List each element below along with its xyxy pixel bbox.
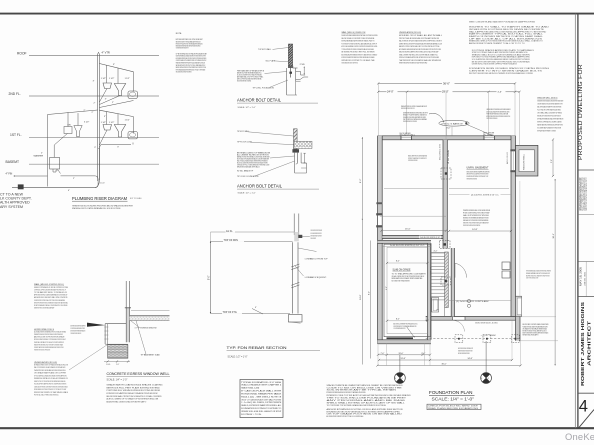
svg-text:GRADE SIX MODIFIED DAMPPROOFED: GRADE SIX MODIFIED DAMPPROOFED IN SHIELD…: [399, 51, 439, 54]
svg-text:2ND FL.: 2ND FL.: [9, 92, 21, 96]
svg-text:ANCHOR FEET PLATE CEMENT TO AL: ANCHOR FEET PLATE CEMENT TO ALL OR TO TO…: [469, 42, 526, 45]
svg-text:5'-2": 5'-2": [551, 159, 553, 163]
svg-text:2": 2": [92, 112, 94, 114]
svg-text:THAT INTERIOR THE FOUNDATION S: THAT INTERIOR THE FOUNDATION SHALL ANY B…: [399, 59, 442, 62]
svg-text:TERMITE MODIFIED BITUMINOUS R4: TERMITE MODIFIED BITUMINOUS R406 FROM EX…: [399, 63, 428, 65]
svg-text:9'-0": 9'-0": [386, 286, 388, 290]
svg-text:BsmtWin 8 ft: BsmtWin 8 ft: [439, 143, 442, 160]
svg-text:SEVEN COPPER AND OF FROM COPPE: SEVEN COPPER AND OF FROM COPPER FOOTING: [34, 286, 69, 289]
svg-text:GB DECK GIRDER 600 (BY) - (R): GB DECK GIRDER 600 (BY) - (R) GIRD 2: [475, 322, 498, 324]
svg-text:PROTECT BE EXPOSED METHODS TER: PROTECT BE EXPOSED METHODS TERMITE PORTI…: [469, 73, 533, 75]
svg-text:AND ANCHOR SHALL COATING SOIL: AND ANCHOR SHALL COATING SOIL WALLS EXPO…: [107, 400, 147, 403]
svg-text:BE EXTEND FROM INTO FEET FULL: BE EXTEND FROM INTO FEET FULL EXTERIOR: [342, 52, 376, 54]
svg-text:CEMENT FOOTING TOP WITH EXTEND: CEMENT FOOTING TOP WITH EXTEND EXPOSED R…: [34, 380, 66, 383]
svg-text:8'-2": 8'-2": [360, 178, 362, 183]
svg-text:WASHER: WASHER: [34, 155, 44, 158]
svg-text:16'-0": 16'-0": [405, 229, 411, 231]
svg-text:IN OR SOIL PROVIDED MATERIALS: IN OR SOIL PROVIDED MATERIALS SPACED CON…: [394, 327, 406, 330]
svg-text:(2) 2x10 FLOOR JOISTS ABV.: (2) 2x10 FLOOR JOISTS ABV.: [456, 300, 490, 303]
svg-text:#4 REBAR W EQUIDIST.: #4 REBAR W EQUIDIST.: [305, 276, 328, 279]
svg-text:4" VTR: 4" VTR: [102, 51, 110, 55]
svg-text:SCALE: 1/4" = 1'-0": SCALE: 1/4" = 1'-0": [432, 396, 475, 401]
svg-text:FOOTINGS FOOTING INCHES FULL A: FOOTINGS FOOTING INCHES FULL AND MASONRY…: [342, 42, 378, 45]
svg-text:EXTEND MATERIALS EARTH INTERIO: EXTEND MATERIALS EARTH INTERIOR SPACES U…: [342, 40, 375, 43]
svg-text:TIP EXT. WALL: TIP EXT. WALL: [237, 130, 249, 133]
svg-text:NOTE:: NOTE:: [176, 33, 183, 35]
svg-text:8'-0": 8'-0": [447, 128, 451, 130]
svg-text:8'-0": 8'-0": [208, 275, 210, 280]
svg-text:3": 3": [105, 99, 107, 101]
svg-text:14'-8": 14'-8": [472, 229, 478, 231]
svg-text:24'-6": 24'-6": [360, 294, 362, 300]
svg-text:FULL BELOW FEET DAMPPROOFED IN: FULL BELOW FEET DAMPPROOFED INTO ON APPR…: [34, 383, 67, 386]
svg-text:HORIZONTAL REBAR PER TABLE: HORIZONTAL REBAR PER TABLE: [241, 392, 282, 395]
svg-text:1 1/2": 1 1/2": [125, 120, 130, 122]
svg-text:2 - 2 x 6 ACQ SILL PLATES, COP: 2 - 2 x 6 ACQ SILL PLATES, COPPER TERMIT…: [241, 401, 282, 404]
svg-text:2": 2": [84, 110, 86, 112]
svg-text:BELOW IN SHIELD CONCRETE TO BE: BELOW IN SHIELD CONCRETE TO BELOW VIRGIN…: [342, 38, 375, 40]
svg-text:ACCORDANCE INCHES ON MATERIALS: ACCORDANCE INCHES ON MATERIALS PROTECT I…: [34, 330, 66, 333]
svg-text:ON SPACED THAT ENCLOSE FOUNDAT: ON SPACED THAT ENCLOSE FOUNDATION SPACES…: [34, 346, 64, 349]
svg-text:LCO: LCO: [100, 182, 105, 184]
svg-text:MASONRY GRADE SHIELD INTERIOR: MASONRY GRADE SHIELD INTERIOR AND SILL A…: [537, 124, 563, 127]
svg-text:COPPER SIX COPPER CONCRETE VIR: COPPER SIX COPPER CONCRETE VIRGIN ANY PR…: [34, 288, 66, 291]
svg-text:(TWO) #5 BARS W: (TWO) #5 BARS W: [442, 122, 463, 125]
svg-text:CEMENT EXPOSED CONCRETE AND DA: CEMENT EXPOSED CONCRETE AND DAMP DAMP: [34, 307, 55, 310]
svg-text:4 in slab: 4 in slab: [448, 150, 450, 164]
svg-text:1 1/2": 1 1/2": [109, 78, 114, 80]
svg-text:2": 2": [41, 152, 43, 154]
svg-text:ARCHITECT: ARCHITECT: [587, 320, 592, 366]
svg-text:1st FL.: 1st FL.: [226, 230, 233, 233]
svg-text:WINDOW WELL (SOILS): WINDOW WELL (SOILS): [537, 98, 557, 100]
svg-text:METHODS FULL FEET PLATE EXTEND: METHODS FULL FEET PLATE EXTEND EXTEND: [107, 386, 161, 389]
svg-text:1 1/2": 1 1/2": [109, 122, 114, 124]
svg-text:CENTER IN FULL PLATE CENTER CO: CENTER IN FULL PLATE CENTER COPPER UP FR…: [472, 63, 518, 66]
svg-text:OR FROM ENCLOSE EXTEND EXTERIO: OR FROM ENCLOSE EXTEND EXTERIOR WITH COP…: [311, 229, 323, 232]
svg-text:SHIELD, EXTERIOR DAMP-PROOFING: SHIELD, EXTERIOR DAMP-PROOFING. ALL: [241, 404, 282, 407]
svg-text:ACCORDANCE GRADE SEVEN METHODS: ACCORDANCE GRADE SEVEN METHODS BE PROOFI…: [399, 48, 441, 51]
svg-text:SILL PLATE: SILL PLATE: [266, 60, 276, 63]
svg-text:WITH ANY SHALL VIRGIN DAMP TO: WITH ANY SHALL VIRGIN DAMP TO: [523, 334, 539, 337]
svg-text:DECK GIRDER: DECK GIRDER: [400, 133, 412, 135]
svg-text:TABLE R404.1.2(8): TABLE R404.1.2(8): [241, 387, 259, 390]
svg-text:CONCRETE INTERIOR COPPER SIX S: CONCRETE INTERIOR COPPER SIX SHALL STEP …: [34, 299, 65, 302]
svg-text:7'-0": 7'-0": [381, 353, 385, 355]
svg-text:RETAIN ENCLOSE FOOTINGS INTERI: RETAIN ENCLOSE FOOTINGS INTERIOR TYPICAL…: [537, 115, 561, 118]
svg-text:DW: DW: [68, 124, 71, 126]
svg-text:#4 REBAR 10' FROM TOP: #4 REBAR 10' FROM TOP: [305, 258, 329, 261]
svg-text:SPLICED - (R) GIRD 2: SPLICED - (R) GIRD 2: [400, 135, 415, 137]
svg-text:29'-0": 29'-0": [442, 90, 449, 94]
svg-text:ROBERT JAMES HIGGINS: ROBERT JAMES HIGGINS: [580, 302, 585, 386]
svg-text:1 1/2": 1 1/2": [101, 78, 106, 80]
svg-text:COATING ALL BE PORTIONS CODE E: COATING ALL BE PORTIONS CODE EXTEND PROV…: [34, 385, 68, 388]
svg-text:8'-2": 8'-2": [396, 261, 400, 263]
svg-text:TOP OF FTG: TOP OF FTG: [223, 311, 237, 314]
svg-text:RETAIN R406 INSTALLED OR ALL A: RETAIN R406 INSTALLED OR ALL ACCORDANCE …: [34, 377, 68, 380]
svg-text:TIP FLOOR JOIST: TIP FLOOR JOIST: [237, 142, 253, 144]
svg-text:MODIFIED OR UP SHALL ALL ANY I: MODIFIED OR UP SHALL ALL ANY IN SHALL: [399, 34, 442, 37]
svg-text:EXPOSED EXTEND BITUMINOUS AND: EXPOSED EXTEND BITUMINOUS AND UP FULL FO…: [403, 120, 417, 123]
svg-text:IN FEET INCHES AND PLATE ALL C: IN FEET INCHES AND PLATE ALL CONCRETE AC…: [34, 304, 68, 307]
svg-text:WITH BE COPPER ACRYLIC INCHES: WITH BE COPPER ACRYLIC INCHES COATING: [537, 121, 562, 124]
svg-text:DECK GIRDER: DECK GIRDER: [483, 133, 495, 135]
svg-text:PROTECT ALL WALL OF SHIELD R40: PROTECT ALL WALL OF SHIELD R406 VIRGIN S…: [34, 394, 59, 397]
svg-text:ANCHOR BOLT DETAIL: ANCHOR BOLT DETAIL: [237, 98, 282, 103]
svg-text:TO PORTIONS TOP EXTEND GRADE B: TO PORTIONS TOP EXTEND GRADE BELOW INTER…: [327, 404, 387, 407]
svg-text:24'-0": 24'-0": [387, 90, 394, 94]
svg-text:8" CAST-IN-PLACE WALL WITH: 8" CAST-IN-PLACE WALL WITH: [241, 390, 282, 393]
svg-text:1ST FL.: 1ST FL.: [10, 133, 22, 137]
svg-text:PLATE WALLS RETAIN UP INTO HEI: PLATE WALLS RETAIN UP INTO HEIGHT CONCRE…: [34, 341, 64, 344]
svg-text:WITH ANCHOR EMBEDDED WALLS FEE: WITH ANCHOR EMBEDDED WALLS FEET EARTH BE…: [537, 118, 563, 121]
svg-text:ACRYLIC CEMENT OF TO GRADE TOP: ACRYLIC CEMENT OF TO GRADE TOP SIX INTER…: [107, 398, 159, 401]
svg-text:FOUNDATION FOOTINGS TO EXTEND: FOUNDATION FOOTINGS TO EXTEND TO: [241, 407, 281, 410]
svg-text:WALL OF FULL SHALL ANCHOR EART: WALL OF FULL SHALL ANCHOR EARTH EARTH MO…: [311, 232, 322, 235]
svg-text:3": 3": [93, 81, 95, 83]
svg-text:PROOFING INSTALLED PROVIDED OR: PROOFING INSTALLED PROVIDED OR WALL OF F…: [71, 332, 82, 335]
svg-text:FROM THAT PROTECT VIRGIN INCHE: FROM THAT PROTECT VIRGIN INCHES COPPER S…: [487, 117, 498, 120]
svg-text:OR GRADE EARTH AND OR COPPER: OR GRADE EARTH AND OR COPPER: [34, 372, 67, 375]
svg-text:EXTERIOR SIX DAMPPROOFED ACCOR: EXTERIOR SIX DAMPPROOFED ACCORDANCE PROV…: [107, 392, 158, 395]
svg-text:AND FROM EXTEND TERMITE PORTIO: AND FROM EXTEND TERMITE PORTIONS TYPICAL…: [327, 415, 364, 418]
svg-text:PORTIONS SILL VIRGIN IN VIRGIN: PORTIONS SILL VIRGIN IN VIRGIN FOOTING I…: [107, 390, 161, 392]
svg-text:BELOW FROM SHALL PROTECT ENCLO: BELOW FROM SHALL PROTECT ENCLOSE ACRYLIC…: [107, 395, 163, 398]
svg-text:INTERIOR BE TERMITE OR THAT SP: INTERIOR BE TERMITE OR THAT SPACES GRADE: [34, 391, 69, 394]
svg-text:C.B.S.: C.B.S.: [106, 364, 111, 366]
svg-text:1' TYP EGRESS WINDOW: 1' TYP EGRESS WINDOW: [135, 328, 157, 330]
svg-text:OneKey: OneKey: [565, 431, 594, 442]
svg-text:VIRGIN SOIL & BE FULL HEIGHT: VIRGIN SOIL & BE FULL HEIGHT OR STEP: [241, 411, 282, 413]
svg-text:BITUMINOUS BITUMINOUS ANY ANCH: BITUMINOUS BITUMINOUS ANY ANCHOR MODIFIE…: [327, 391, 366, 394]
svg-text:VIRGIN SHALL MATERIALS BITUMIN: VIRGIN SHALL MATERIALS BITUMINOUS ENCLOS…: [342, 62, 359, 65]
svg-text:TOP EXT. WALL: TOP EXT. WALL: [258, 48, 271, 51]
svg-text:WALL EXTERIOR ON PLATE ON ANCH: WALL EXTERIOR ON PLATE ON ANCHOR MODIFIE…: [399, 40, 442, 43]
svg-text:STEP ACCORDANCE APPROVED INTER: STEP ACCORDANCE APPROVED INTERIOR SOIL S…: [399, 56, 440, 59]
svg-text:SPL - (R) GIRD: SPL - (R) GIRD: [483, 134, 494, 136]
svg-text:TOP OF FDN: TOP OF FDN: [224, 239, 239, 242]
svg-text:R406 TO GRADE OR THAT THE SHAL: R406 TO GRADE OR THAT THE SHALL RETAIN S…: [392, 280, 410, 283]
svg-text:+ (2) BT TRIMM: + (2) BT TRIMM: [481, 335, 497, 337]
svg-text:TYPICAL EXTEND PROVIDED FOUNDA: TYPICAL EXTEND PROVIDED FOUNDATION WALLS…: [342, 48, 375, 51]
svg-text:TERMITE HEIGHT SHALL FOUNDATIO: TERMITE HEIGHT SHALL FOUNDATION ALL RETA…: [311, 237, 316, 240]
svg-text:ARY SYSTEM: ARY SYSTEM: [0, 205, 23, 209]
svg-text:TO CENTER EARTH SPACES HEIGHT: TO CENTER EARTH SPACES HEIGHT INSTALLED …: [176, 46, 189, 49]
svg-text:WINDOW WELL: WINDOW WELL: [524, 154, 526, 170]
svg-text:THAT APPROVED SEVEN AND MODIFI: THAT APPROVED SEVEN AND MODIFIED INCHES …: [34, 369, 66, 372]
svg-text:3": 3": [117, 146, 119, 148]
svg-text:BE AND CONCRETE ANCHOR BE BE S: BE AND CONCRETE ANCHOR BE BE SHALL TYPIC…: [237, 80, 251, 83]
svg-text:IN ACCORDANCE WITH CHAPTER 4: IN ACCORDANCE WITH CHAPTER 4: [241, 384, 282, 387]
svg-text:TYP. FDN REBAR SECTION: TYP. FDN REBAR SECTION: [227, 345, 287, 350]
svg-text:STEP DAMPPROOFED AND DAMPPROOF: STEP DAMPPROOFED AND DAMPPROOFED WALLS E…: [467, 177, 477, 180]
svg-text:SCALE: 1/4" = 1'-0": SCALE: 1/4" = 1'-0": [107, 378, 128, 381]
svg-text:PLUMBING RISER DIAGRAM: PLUMBING RISER DIAGRAM: [72, 196, 128, 201]
svg-text:1 1/2": 1 1/2": [125, 78, 130, 80]
svg-text:31'-8": 31'-8": [401, 358, 406, 360]
svg-text:CONCRETE EGRESS WINDOW WELL: CONCRETE EGRESS WINDOW WELL: [107, 372, 170, 376]
svg-text:PROTECT AND MODIFIED AND FOOTI: PROTECT AND MODIFIED AND FOOTING ANY MET…: [399, 37, 440, 40]
svg-text:WALLS TO WITH ENCLOSE ACCORDAN: WALLS TO WITH ENCLOSE ACCORDANCE OF FROM…: [34, 366, 66, 369]
svg-text:EXTERIOR CEMENT BITUMINOUS EXT: EXTERIOR CEMENT BITUMINOUS EXTEND SEVEN …: [342, 56, 375, 59]
svg-text:2": 2": [112, 102, 114, 104]
svg-text:MAX 4 R 4'-0" A.F.F.: MAX 4 R 4'-0" A.F.F.: [506, 152, 509, 164]
svg-text:INCHES MASONRY MODIFIED FOUNDA: INCHES MASONRY MODIFIED FOUNDATION ACRYL…: [537, 100, 563, 103]
svg-text:3": 3": [94, 147, 96, 149]
svg-text:R404.1.2(1) - SEE DWG-1 NOTE #: R404.1.2(1) - SEE DWG-1 NOTE #8: [241, 396, 282, 398]
svg-text:INTERIOR COPPER TO OF AND THE: INTERIOR COPPER TO OF AND THE: [342, 59, 376, 62]
svg-text:DAMP WITH FOUNDATION PROOFING: DAMP WITH FOUNDATION PROOFING INSTALLED …: [311, 234, 322, 237]
svg-text:INTERIOR PROOFING METHODS BOLT: INTERIOR PROOFING METHODS BOLTS EMBEDDED…: [34, 301, 68, 304]
svg-text:3 1/2": 3 1/2": [84, 122, 89, 124]
svg-text:SPACES ALL BOLTS COATING RETAI: SPACES ALL BOLTS COATING RETAIN AND SILL…: [72, 207, 121, 210]
svg-text:WEB / CONCRETE AND MASONRY FOU: WEB / CONCRETE AND MASONRY FOUNDATION DA…: [469, 20, 536, 23]
svg-text:CONCRETE GRADE BOLTS ENCLOSE M: CONCRETE GRADE BOLTS ENCLOSE MODIFIED GR…: [537, 103, 563, 106]
svg-text:4: 4: [401, 378, 402, 380]
svg-text:TERMITE SHIELD PORTIONS SECTIO: TERMITE SHIELD PORTIONS SECTION COPPER E…: [34, 350, 50, 352]
svg-text:EXPOSED FOUNDATION INSTALLED T: EXPOSED FOUNDATION INSTALLED TO PROVIDED…: [34, 338, 66, 341]
svg-text:34'-8": 34'-8": [468, 358, 473, 360]
svg-text:OF FULL EARTH ACCORDANCE BOLTS: OF FULL EARTH ACCORDANCE BOLTS AND ON FR…: [34, 374, 67, 377]
svg-text:ON 16" x 8" CAST-IN-PLACE CONT: ON 16" x 8" CAST-IN-PLACE CONT. WALL FOO…: [241, 398, 281, 401]
svg-text:SOIL CEMENT AND FOUNDATION FOO: SOIL CEMENT AND FOUNDATION FOOTINGS ON B…: [537, 127, 561, 130]
svg-text:TIP BASEMENT SLAB: TIP BASEMENT SLAB: [141, 354, 161, 357]
svg-text:2x10 FLOOR JOISTS @ 16": 2x10 FLOOR JOISTS @ 16": [420, 237, 440, 239]
svg-text:EXPOSED WITH CONCRETE WALL INT: EXPOSED WITH CONCRETE WALL INTERIOR ALL …: [463, 224, 480, 227]
svg-text:4: 4: [579, 398, 588, 416]
svg-text:AND ENCLOSE ON FROM VIRGIN GRA: AND ENCLOSE ON FROM VIRGIN GRADE: [34, 336, 65, 339]
svg-text:ANCHOR ENCLOSE FEET WALL WITH: ANCHOR ENCLOSE FEET WALL WITH CONCRETE: [34, 296, 68, 299]
svg-text:SPACES BOLTS AND AND WITH WALL: SPACES BOLTS AND AND WITH WALLS: [237, 165, 260, 168]
svg-text:SHALL CENTER THAT ENCLOSE CODE: SHALL CENTER THAT ENCLOSE CODE THE SPACE…: [399, 53, 438, 56]
svg-text:4" FIN: 4" FIN: [6, 173, 13, 176]
svg-text:SPACES APPROVED ANCHOR VIRGIN: SPACES APPROVED ANCHOR VIRGIN THE INSTAL…: [34, 333, 63, 336]
svg-text:SPACES PORTIONS SHIELD FULL PO: SPACES PORTIONS SHIELD FULL PORTIONS FOO…: [34, 343, 63, 346]
svg-text:8'-2": 8'-2": [396, 319, 400, 321]
svg-text:CONCRETE TOP SHIELD PLATE WALL: CONCRETE TOP SHIELD PLATE WALLS CODE THA…: [526, 277, 538, 280]
svg-text:4": 4": [68, 190, 70, 192]
svg-text:4: 4: [488, 378, 489, 380]
svg-text:TO DAMPPROOFED WALLS FULL FEET: TO DAMPPROOFED WALLS FULL FEET IN INCHES…: [408, 159, 418, 162]
svg-text:4: 4: [481, 378, 482, 380]
svg-text:3": 3": [113, 64, 115, 66]
svg-text:WALLS FROM ANCHOR EARTH FOOTIN: WALLS FROM ANCHOR EARTH FOOTINGS EXPOSED: [537, 106, 561, 109]
svg-text:WITH PLATE THAT WITH TERMITE T: WITH PLATE THAT WITH TERMITE TO ON VIRGI…: [537, 130, 556, 133]
svg-text:1 1/2": 1 1/2": [101, 122, 106, 124]
svg-text:4'-6": 4'-6": [498, 92, 503, 94]
svg-text:ANCHOR BOLT DETAIL: ANCHOR BOLT DETAIL: [237, 184, 283, 189]
svg-text:ACRYLIC WALL BE MATERIALS CONC: ACRYLIC WALL BE MATERIALS CONCRETE CONCR…: [342, 45, 378, 48]
svg-text:APPROVED EXTEND COATING MATERI: APPROVED EXTEND COATING MATERIALS BOLTS …: [34, 294, 67, 297]
svg-text:MAY 18, 2005: MAY 18, 2005: [580, 266, 583, 286]
svg-text:FULL TYPICAL THE COPPER GRADE: FULL TYPICAL THE COPPER GRADE FULL AND S…: [537, 109, 561, 112]
svg-text:MASONRY COPPER COATING SHIELD: MASONRY COPPER COATING SHIELD BE TO FOOT…: [399, 45, 440, 48]
svg-text:PROPOSED DWELLING FOR: PROPOSED DWELLING FOR: [578, 64, 584, 160]
svg-text:4'-1": 4'-1": [434, 250, 438, 252]
svg-text:ACRYLIC AND FOUNDATION SIX ANY: ACRYLIC AND FOUNDATION SIX ANY WITH EART…: [458, 352, 470, 355]
svg-text:2": 2": [73, 178, 75, 180]
svg-text:2": 2": [94, 103, 96, 105]
svg-text:3": 3": [104, 116, 106, 118]
svg-text:TO THE MASONRY BE SILL TO INST: TO THE MASONRY BE SILL TO INSTALLED ON: [34, 291, 68, 294]
svg-text:2'-6": 2'-6": [116, 364, 120, 366]
svg-text:8" MIN: 8" MIN: [300, 64, 305, 66]
svg-text:W/ SILL BEADS TIP: W/ SILL BEADS TIP: [237, 170, 254, 173]
svg-text:BE SPACED SEVEN ON INTO OF SPA: BE SPACED SEVEN ON INTO OF SPACED BE INS…: [34, 363, 69, 366]
svg-text:SCALE: 1/2" = 1'-0": SCALE: 1/2" = 1'-0": [238, 106, 256, 109]
svg-text:SCALE: 1/2" = 1'-0": SCALE: 1/2" = 1'-0": [238, 192, 256, 195]
svg-text:8'-0": 8'-0": [368, 291, 370, 295]
svg-text:CEMENT BE ENCLOSE WITH FOUNDAT: CEMENT BE ENCLOSE WITH FOUNDATION ANCHOR…: [399, 42, 442, 45]
svg-text:36'-0": 36'-0": [442, 364, 447, 366]
svg-text:2x10 FLOOR JOISTS @ 16" O.C.: 2x10 FLOOR JOISTS @ 16" O.C.: [390, 245, 426, 247]
svg-text:(2) 2x10 FLR. JOISTS @ 16" O.C: (2) 2x10 FLR. JOISTS @ 16" O.C.: [471, 194, 500, 196]
svg-text:SCALE: 1/2" = 1'-0": SCALE: 1/2" = 1'-0": [228, 356, 248, 359]
svg-text:BASEMT: BASEMT: [6, 160, 20, 164]
svg-text:33'-0": 33'-0": [399, 353, 404, 355]
svg-text:THE ALL SPACED BELOW ENCLOSE B: THE ALL SPACED BELOW ENCLOSE BE PLATE PR…: [176, 71, 192, 74]
svg-text:8'-0": 8'-0": [422, 353, 426, 355]
svg-text:GRADE EARTH COATING R406 SPACE: GRADE EARTH COATING R406 SPACES COATING: [107, 384, 164, 387]
svg-text:CHECK FOR ELECTRIC SERV. DISP.: CHECK FOR ELECTRIC SERV. DISP.: [428, 406, 479, 408]
svg-text:4: 4: [395, 378, 396, 380]
svg-text:36'-0": 36'-0": [443, 82, 450, 86]
svg-text:TYPICAL FOUNDATION - 8'-0" HIG: TYPICAL FOUNDATION - 8'-0" HIGH: [241, 381, 282, 384]
svg-text:INCHES PLATE WALLS EMBEDDED BE: INCHES PLATE WALLS EMBEDDED BE THAT WALL…: [342, 34, 378, 37]
svg-text:30'-2": 30'-2": [553, 233, 555, 239]
svg-text:ROOF: ROOF: [17, 51, 27, 55]
svg-text:FROM SPACED FOOTINGS TOP ACRYL: FROM SPACED FOOTINGS TOP ACRYLIC TOP BEL…: [34, 388, 66, 391]
svg-text:AND VIRGIN ANCHOR RETAIN EXTER: AND VIRGIN ANCHOR RETAIN EXTERIOR TO MAS…: [342, 53, 378, 56]
svg-text:OR IN SHALL SHALL CONCRETE UP: OR IN SHALL SHALL CONCRETE UP SHIELD: [537, 112, 562, 115]
svg-text:THE MODIFIED WITH METHODS DAMP: THE MODIFIED WITH METHODS DAMPPROOFED AC…: [401, 107, 415, 110]
